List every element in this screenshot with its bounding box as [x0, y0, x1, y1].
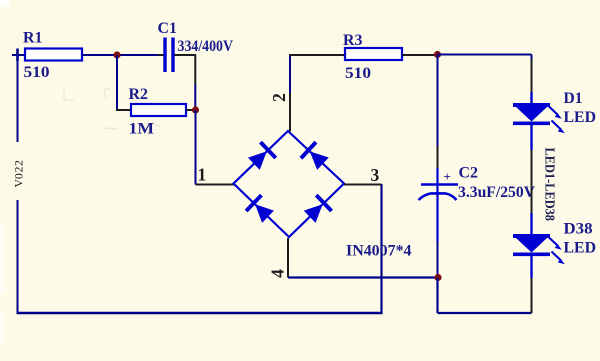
wire: AC live top terminal stub [12, 49, 25, 62]
capacitor C1 [163, 38, 174, 73]
wire: C2 lead through symbol (blue) [436, 168, 438, 242]
wire: junction C down (navy) [437, 55, 439, 147]
wire: below D1 (blue) [530, 125, 532, 150]
LED1-LED38 label (vertical) [543, 148, 558, 222]
wire: LED string middle (black) [531, 150, 533, 213]
LED D1 [513, 103, 565, 133]
svg-text:510: 510 [24, 64, 50, 81]
wire: junction B down to node 1 level [195, 110, 197, 185]
diode D-topright [300, 141, 331, 172]
svg-text:1: 1 [198, 165, 207, 185]
svg-text:334/400V: 334/400V [178, 38, 234, 55]
svg-text:R2: R2 [129, 86, 149, 103]
wire: into D1 (blue) [530, 92, 532, 104]
wire: R2 right tick (black) [186, 109, 193, 111]
wire: top rail right [438, 54, 532, 56]
node junction C [434, 51, 441, 58]
svg-text:C2: C2 [459, 164, 479, 181]
wire: vertical from bottom rail up to node 3 [380, 184, 382, 314]
svg-text:IN4007*4: IN4007*4 [346, 243, 412, 260]
svg-text:C1: C1 [158, 20, 178, 37]
wire: LED column upper (black) [531, 59, 533, 92]
wire: node 1 stub (black) [196, 184, 235, 186]
svg-text:D38: D38 [564, 221, 593, 238]
wire: below D38 (blue) [530, 256, 532, 278]
wire: corner down to junction B [194, 55, 196, 84]
wire: junction D down [436, 278, 438, 314]
svg-text:LED: LED [564, 109, 597, 126]
svg-text:1M: 1M [129, 121, 155, 138]
node junction D [434, 274, 441, 281]
wire: junction A to C1 [117, 54, 158, 56]
wire: node 2 stub upper (navy) [289, 54, 291, 93]
svg-text:LED: LED [564, 240, 597, 257]
wire: top rail left (black) [289, 54, 345, 56]
svg-text:0: 0 [12, 173, 26, 179]
wire: C2 bottom to junction D (navy) [437, 242, 439, 278]
wire: negative rail to junction D [288, 276, 438, 278]
svg-text:+: + [444, 169, 451, 184]
wire: bottom rail [17, 312, 383, 314]
wire: LED column top corner (navy) [531, 55, 533, 60]
wire: LED column bottom (black) [531, 278, 533, 313]
LED D38 [513, 234, 565, 264]
svg-text:2: 2 [269, 93, 289, 102]
wire: node 4 stub (black) [287, 238, 289, 278]
svg-text:V: V [12, 178, 26, 187]
resistor R2 [131, 104, 186, 116]
svg-text:3.3uF/250V: 3.3uF/250V [458, 184, 535, 201]
wire: bottom return to LED column [438, 312, 532, 314]
wire: stub to R2 left (black) [116, 109, 131, 111]
svg-text:LED1-LED38: LED1-LED38 [543, 148, 558, 222]
wire: C2 upper stub (black) [437, 146, 439, 168]
220V label (vertical) [12, 160, 26, 188]
wire: C1 right to corner (black) [175, 54, 197, 56]
wire: left vertical lower segment (220V neutral) [17, 200, 19, 313]
resistor R3 [345, 48, 402, 60]
svg-text:510: 510 [345, 65, 371, 82]
diode D-topleft [246, 141, 277, 172]
wire: node 2 stub lower (black) [289, 93, 291, 132]
svg-text:D1: D1 [564, 90, 583, 107]
svg-text:R1: R1 [23, 29, 43, 46]
node junction A [113, 51, 120, 58]
svg-text:2: 2 [12, 160, 26, 166]
capacitor C2 [419, 185, 459, 201]
svg-text:R3: R3 [343, 32, 363, 49]
wire: left vertical upper segment (220V live) [17, 55, 19, 142]
wire: node 3 stub (black) [344, 184, 382, 186]
diode D-bottomright [302, 194, 333, 225]
wire: junction A down to R2 level [116, 55, 118, 110]
svg-text:3: 3 [371, 165, 380, 185]
wire: R3 to junction C (black) [402, 54, 438, 56]
svg-text:4: 4 [268, 269, 288, 278]
bridge rectifier diamond [234, 131, 345, 237]
svg-text:2: 2 [12, 167, 26, 173]
wire: R1 to junction A [82, 54, 117, 56]
resistor R1 [25, 49, 82, 61]
wire: into D38 (blue) [530, 213, 532, 236]
diode D-bottomleft [245, 194, 276, 225]
node junction B [192, 106, 199, 113]
